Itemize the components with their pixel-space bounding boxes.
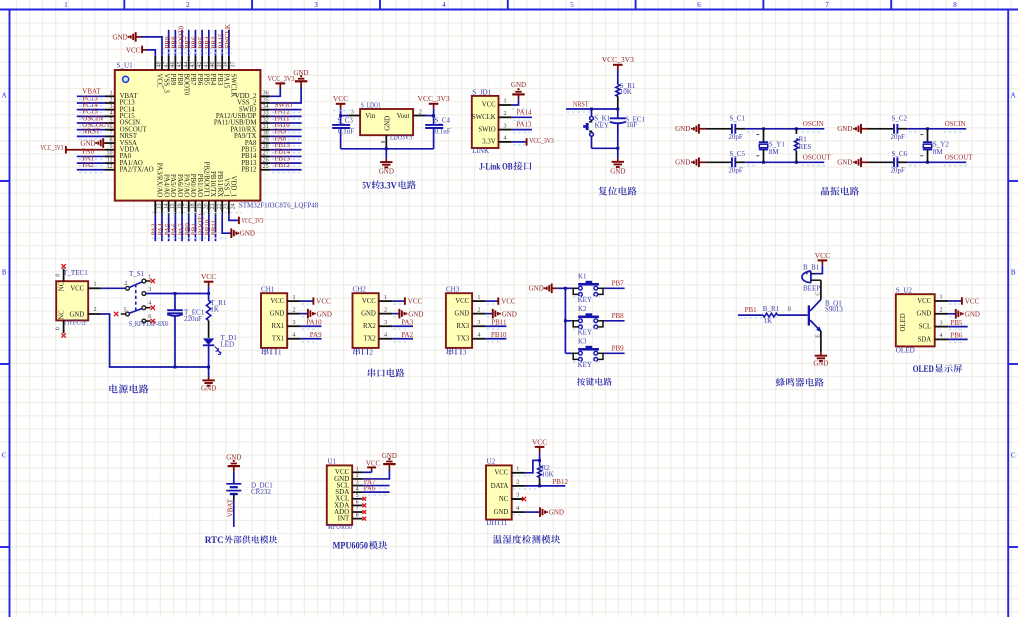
battery D_DC1 CR232 [226,472,273,496]
ground [610,148,625,175]
svg-text:SCL: SCL [919,324,931,331]
wire OSCIN [745,120,824,132]
svg-text:GND: GND [837,159,852,167]
power VCC [201,272,216,293]
wire VCC branch to pin 1 [513,459,541,476]
wire + net label PB14 (U1 pin 27) [270,148,301,160]
connector CH1 body [261,286,301,348]
svg-text:PB3: PB3 [216,74,223,86]
svg-text:1K: 1K [764,317,773,325]
svg-text:2: 2 [516,480,519,486]
svg-text:1: 1 [93,281,96,287]
svg-text:0: 0 [56,274,62,277]
wire + net label PB7 (U1 pin 43) [184,30,192,56]
svg-text:VDD_1: VDD_1 [229,176,236,198]
svg-text:20pF: 20pF [891,133,906,141]
wire + net label PB0 (U1 pin 18) [184,214,192,241]
wire + net label PA5 (U1 pin 15) [164,214,172,241]
svg-text:VCC: VCC [482,102,496,109]
svg-text:TX2: TX2 [363,336,376,343]
svg-text:S_C3: S_C3 [337,117,353,125]
svg-text:20pF: 20pF [728,133,743,141]
svg-text:S_C1: S_C1 [729,115,745,123]
svg-text:VCC: VCC [366,461,381,468]
buzzer B_B1 BEEP [802,264,821,293]
ground at CH3 pin 2 [486,309,517,319]
svg-text:8: 8 [953,1,957,9]
svg-text:S_C6: S_C6 [892,150,908,158]
svg-text:PA9: PA9 [310,331,322,339]
capacitor T_EC1 220uF [167,294,205,368]
svg-text:1: 1 [516,467,519,473]
resistor T_R1 1K [206,294,226,338]
svg-text:RES: RES [799,143,812,151]
svg-text:PA6: PA6 [364,486,376,493]
svg-text:RX3: RX3 [456,323,469,330]
svg-text:PB5: PB5 [203,74,210,86]
svg-text:GND: GND [382,453,397,460]
svg-text:GND: GND [502,310,517,318]
ground at JD1 pin 1 [511,81,528,109]
ground at DHT pin 4 [513,507,564,517]
wire + net label PB10 (CH3 pin 4) [486,331,507,342]
wire + net label PB13 (U1 pin 26) [270,154,301,166]
svg-text:GND: GND [549,509,564,517]
svg-text:CR232: CR232 [251,488,271,496]
svg-text:S_C2: S_C2 [892,115,908,123]
svg-text:PB10/TX: PB10/TX [209,171,216,197]
svg-text:2: 2 [504,111,507,117]
svg-text:U2: U2 [487,458,496,466]
wire ground rail vertical [564,287,567,353]
title serial circuit [368,369,405,378]
svg-text:3: 3 [356,480,359,486]
title J-Link OB [479,161,531,172]
svg-text:TX3: TX3 [457,336,470,343]
svg-text:B_R1: B_R1 [763,305,780,313]
svg-text:3.3V: 3.3V [380,181,397,191]
wire + net label PB5 (U2 pin 3) [948,319,968,330]
svg-text:GND: GND [317,310,332,318]
svg-text:PB11: PB11 [491,319,507,327]
svg-text:1: 1 [293,295,296,301]
svg-text:PB7: PB7 [612,280,625,288]
svg-text:E: E [816,334,822,338]
svg-text:3: 3 [940,320,943,326]
svg-text:GND: GND [384,116,391,131]
power VCC [532,437,547,460]
svg-text:NC: NC [499,496,509,503]
wire + net label PB11 (U1 pin 22) [211,214,219,241]
capacitor S_C3 [332,111,354,149]
svg-text:T_TEC1: T_TEC1 [63,269,88,277]
svg-text:5: 5 [124,307,127,313]
wire Vin [339,114,348,117]
svg-text:5: 5 [570,1,574,9]
svg-text:OLED: OLED [913,365,934,375]
wire + net label PA9 (CH1 pin 4) [301,331,322,342]
power VCC_3V3 [602,55,634,84]
power VCC_3V3 at U1 pin 36 VDD_2 [268,75,295,96]
svg-text:K1: K1 [578,272,587,280]
wire + net label PA14 (JD1 pin 2) [512,108,532,120]
svg-text:VCC: VCC [815,251,830,260]
svg-text:VCC_3V3: VCC_3V3 [418,94,450,103]
svg-text:VCC_3V3: VCC_3V3 [529,137,554,145]
svg-text:3: 3 [504,123,507,129]
switch T_S1 S_KFT DIP-8X8 [121,270,168,328]
connector S_U2 OLED body [896,286,948,354]
ground at U1 pin 47 VSS_3 [113,32,162,56]
svg-text:GND: GND [837,125,852,133]
svg-text:PA2: PA2 [82,161,94,169]
title MPU6050 module [333,541,388,552]
svg-text:GND: GND [270,311,285,318]
ground (bottom row) [837,158,868,168]
wire + net label PB4 (U1 pin 40) [204,30,212,56]
svg-text:PB6: PB6 [196,74,203,86]
svg-text:PA5/AO: PA5/AO [169,174,176,197]
wire + net label PB6 (U1 pin 42) [191,30,199,56]
pushbutton K2 KEY [572,305,605,337]
svg-text:VCC_3V3: VCC_3V3 [268,75,295,83]
svg-text:3: 3 [384,320,387,326]
svg-text:10K: 10K [620,88,632,96]
svg-text:KEY: KEY [595,122,609,130]
svg-text:2: 2 [124,281,127,287]
svg-text:4: 4 [384,332,387,338]
wire + net label PB15 (U1 pin 28) [270,141,301,153]
svg-text:OSCIN: OSCIN [803,120,824,128]
svg-text:SWCLK: SWCLK [229,74,236,98]
svg-text:220uF: 220uF [184,315,202,323]
title RTC battery module [205,535,278,545]
ground at CH1 pin 2 [301,309,332,319]
svg-text:VCC: VCC [501,298,516,306]
ground at MPU pin 2 [363,453,397,479]
resistor S_R1 10K [616,82,636,109]
wire + net label PB6 (U2 pin 4) [948,332,968,343]
svg-text:TX1: TX1 [272,336,284,343]
svg-text:GND: GND [675,159,690,167]
svg-text:1: 1 [504,99,507,105]
ground at U1 pin 23 VSS_1 [222,214,255,238]
svg-text:K2: K2 [578,305,587,313]
svg-text:PB4: PB4 [209,74,216,86]
svg-text:GND: GND [379,167,394,175]
svg-text:PA3/RX/AO: PA3/RX/AO [156,163,163,198]
ghost marks top [163,49,232,53]
label serial port 1 [262,348,282,357]
wire + net label PA10 (U1 pin 31) [270,121,301,133]
wire + net label PB10 (U1 pin 21) [204,214,212,241]
wire + net label NRST [566,100,619,112]
no-connect X bottom pin [61,333,65,337]
svg-text:DATA: DATA [491,483,509,490]
svg-text:GND: GND [240,230,255,238]
svg-text:U1: U1 [328,458,337,466]
svg-text:2: 2 [940,308,943,314]
wire emitter to ground [816,331,822,352]
title crystal circuit [821,187,859,196]
label serial port 3 [447,348,467,357]
svg-text:VCC: VCC [70,286,84,293]
svg-text:8M: 8M [933,148,944,156]
svg-text:VCC_3V3: VCC_3V3 [241,217,263,225]
wire + net label OSCIN (U1 pin 5) [77,114,105,126]
wire TEC1 pin1 to switch [101,287,125,289]
wire buzzer to collector [816,280,822,299]
power VCC [814,251,830,274]
svg-text:PA4/AO: PA4/AO [162,174,169,197]
svg-text:OLED: OLED [900,313,907,331]
svg-text:GND: GND [454,311,469,318]
svg-text:2: 2 [356,473,359,479]
svg-text:GND: GND [610,167,625,175]
svg-text:1: 1 [278,349,282,357]
capacitor S_EC1 1uF [610,109,646,148]
wire + net label PA3 (CH2 pin 3) [392,319,413,330]
svg-text:PA2: PA2 [401,331,413,339]
svg-text:B: B [1011,269,1016,277]
svg-text:CH1: CH1 [261,286,275,294]
svg-text:0.1uF: 0.1uF [338,128,354,136]
no-connect X switch pins [114,279,155,323]
svg-text:PB7: PB7 [189,74,196,86]
svg-text:PB0/AO: PB0/AO [189,174,196,198]
wire OSCOUT [907,154,973,166]
wire + net label SWIO (U1 pin 34) [270,101,301,113]
svg-text:PA15: PA15 [223,74,230,89]
wire + net label BOOT1 (U1 pin 20) [197,212,205,241]
wire + net label PC15 (U1 pin 4) [77,108,105,120]
svg-text:3: 3 [314,1,318,9]
svg-text:K3: K3 [578,337,587,345]
svg-text:5V: 5V [362,181,371,191]
svg-text:DHT11: DHT11 [487,520,508,527]
svg-text:20pF: 20pF [891,166,906,174]
svg-text:1: 1 [384,295,387,301]
svg-text:4: 4 [442,1,446,9]
svg-text:B_B1: B_B1 [803,264,820,272]
wire + net label PA7 (U1 pin 17) [177,214,185,241]
svg-text:4: 4 [293,332,296,338]
svg-text:VCC: VCC [408,298,423,306]
svg-text:PA6/AO: PA6/AO [176,174,183,197]
title buzzer circuit [776,378,824,387]
power VCC at CH1 pin 1 [301,297,331,305]
svg-text:4: 4 [356,486,359,492]
svg-text:S_C4: S_C4 [435,117,451,125]
wire + net label PA7 (MPU pin 3) [363,479,390,488]
svg-text:4: 4 [940,333,943,339]
svg-text:LDO3V3: LDO3V3 [390,134,412,142]
svg-text:GND: GND [529,285,544,293]
svg-text:PB12: PB12 [275,161,291,169]
svg-text:LINK: LINK [472,147,490,155]
wire switch pin3 to VCC node [146,292,210,295]
wire + net label SWCLK (U1 pin 37) [224,24,232,56]
svg-text:VBAT: VBAT [227,498,235,517]
svg-text:20pF: 20pF [728,166,743,174]
svg-text:3: 3 [516,493,519,499]
svg-text:NRST: NRST [573,100,589,108]
svg-text:A: A [2,92,7,100]
svg-text:2: 2 [93,307,96,313]
capacitor S_C2 20pF [868,115,908,141]
svg-text:0.1uF: 0.1uF [435,128,451,136]
svg-text:GND: GND [965,310,980,318]
svg-text:C: C [2,452,7,460]
svg-text:4: 4 [504,136,507,142]
svg-text:VCC: VCC [201,272,216,281]
svg-text:GND: GND [511,81,526,89]
svg-text:PB1/AO: PB1/AO [196,174,203,198]
wire + net label PA6 (U1 pin 16) [171,214,179,241]
svg-text:GND: GND [916,311,931,318]
resistor R1 RES [795,129,812,163]
svg-text:SDA: SDA [918,336,932,343]
svg-text:BOOT0: BOOT0 [182,74,189,97]
svg-text:OSCIN: OSCIN [945,120,966,128]
wire + net label PA0 (U1 pin 10) [77,148,105,160]
ghost marks bottom [152,213,242,239]
svg-text:PA7/AO: PA7/AO [182,174,189,197]
wire + net label PA13 (JD1 pin 3) [512,121,532,133]
svg-text:CH2: CH2 [353,286,367,294]
svg-text:3: 3 [293,320,296,326]
svg-text:2: 2 [477,307,480,313]
svg-text:1K: 1K [210,305,219,313]
svg-text:MPU6050: MPU6050 [333,542,369,552]
svg-text:GND: GND [675,125,690,133]
svg-text:VCC: VCC [316,298,331,306]
ground at U1 pin 35 VSS_2 [270,69,308,103]
wire + net label VBAT [227,494,235,527]
svg-text:PB9: PB9 [169,74,176,86]
title reset circuit [598,187,636,196]
svg-text:LED: LED [221,340,235,348]
ground (top) [226,453,241,471]
svg-text:S_JD1: S_JD1 [472,89,491,97]
wire + net label OSCOUT (U1 pin 6) [77,121,111,133]
svg-text:VCC: VCC [965,298,980,306]
wire + net label NRST (U1 pin 7) [77,128,105,140]
capacitor S_C4 [425,116,451,149]
wire + net label PB12 (DHT pin 2 DATA) [513,478,568,489]
wire + net label PB3 (U1 pin 39) [211,30,219,56]
svg-text:VSS_3: VSS_3 [162,74,169,94]
power VCC_3V3 at U1 pin 9 VDDA [40,144,105,153]
svg-text:1: 1 [64,1,68,9]
svg-text:VCC: VCC [917,298,931,305]
svg-text:VCC: VCC [156,74,163,88]
label serial port 2 [353,348,373,357]
wire + net label PA10 (CH1 pin 3) [301,319,322,330]
svg-text:PB2/BOOT1: PB2/BOOT1 [203,162,210,198]
wire + net label PB9 [565,345,624,354]
ground [379,149,394,176]
svg-text:GND: GND [80,140,95,148]
svg-text:GND: GND [494,509,509,516]
svg-text:VSS_1: VSS_1 [223,178,230,197]
wire + net label PA12 (U1 pin 33) [270,108,301,120]
svg-text:Vin: Vin [365,113,375,120]
svg-text:VCC: VCC [494,470,508,477]
capacitor S_C1 20pF [706,115,746,141]
svg-text:PA14: PA14 [516,108,532,116]
wire + net label PB8 (U1 pin 45) [171,30,179,56]
svg-text:S_U1: S_U1 [117,61,134,69]
ground at U1 pin 8 VSSA [80,138,105,148]
ground at CH2 pin 2 [392,309,423,319]
svg-text:2: 2 [186,1,190,9]
svg-text:CH3: CH3 [446,286,460,294]
svg-text:37: 37 [230,62,236,68]
wire + net label PA2 (CH2 pin 4) [392,331,413,342]
ground (top row) [837,124,868,134]
svg-text:6: 6 [356,500,359,506]
svg-text:PA13: PA13 [516,121,532,129]
svg-text:GND: GND [813,359,828,367]
svg-text:GND: GND [201,384,216,392]
mcu U1 STM32F103C8T6 body [105,56,319,214]
svg-text:1: 1 [356,466,359,472]
svg-text:8: 8 [356,513,359,519]
svg-text:VCC: VCC [333,94,348,103]
svg-text:RTC: RTC [205,536,224,546]
svg-text:B: B [787,307,791,313]
svg-text:STM32F103C8T6_LQFP48: STM32F103C8T6_LQFP48 [239,201,319,209]
svg-text:S_LDO1: S_LDO1 [361,102,381,110]
wire OSCIN [907,120,966,132]
svg-text:3.3V: 3.3V [482,139,495,146]
svg-text:SWCLK: SWCLK [224,24,232,49]
wire + net label PA3 (U1 pin 13) [151,214,159,241]
svg-text:NRST: NRST [82,128,101,136]
svg-text:PA10: PA10 [306,319,322,327]
svg-text:PB10: PB10 [491,331,507,339]
module U1 MPU6050 body [327,458,363,532]
svg-text:PB1: PB1 [745,306,758,314]
power VCC at CH2 pin 1 [392,297,422,305]
wire + net label PA4 (U1 pin 14) [157,214,165,241]
svg-text:RX2: RX2 [363,323,376,330]
svg-text:GND: GND [361,311,376,318]
connector T_TEC1 TYPE-C-2P body [56,269,101,334]
svg-text:VCC: VCC [455,298,469,305]
svg-text:1: 1 [477,295,480,301]
svg-text:S9013: S9013 [825,305,843,313]
svg-text:3: 3 [148,287,151,293]
wire + net label PA1 (U1 pin 11) [77,154,105,166]
power VCC at MPU pin 1 [363,461,381,473]
regulator S_LDO1 body [348,102,425,149]
wire + net label PB1 (U1 pin 19) [191,214,199,241]
wire + net label PB5 (U1 pin 41) [197,30,205,56]
svg-text:3: 3 [463,349,467,357]
ground at U2 pin 2 [948,309,980,319]
svg-text:GND: GND [69,311,84,318]
svg-text:C: C [816,292,822,296]
wire + net label PB7 [565,280,624,289]
pushbutton S_K1 KEY [583,109,610,148]
svg-text:PA3: PA3 [401,319,413,327]
svg-text:PB6: PB6 [950,332,963,340]
led T_D1 [203,334,237,367]
power VCC_3V3 output [418,94,450,116]
ground for keys [529,284,566,294]
